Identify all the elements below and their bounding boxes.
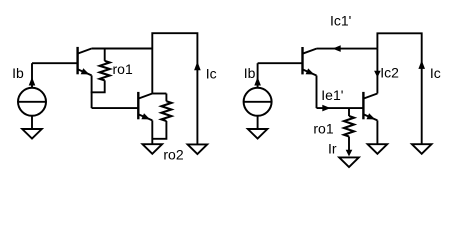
svg-text:Ic: Ic — [430, 65, 441, 81]
wire top rail over to right Ic branch — [377, 33, 421, 60]
wire Q2 emitter down — [151, 120, 153, 144]
wire Q3 emitter to Q4 base — [317, 107, 364, 109]
svg-text:ro1: ro1 — [313, 120, 333, 136]
ground below Q4 emitter — [368, 144, 388, 154]
current arrow Ie1' (points right toward Q4 base) — [322, 105, 330, 112]
wire Q3 emitter down — [316, 76, 318, 109]
wire ro2 bottom to emitter node — [152, 121, 166, 139]
wire Q1 emitter to Q2 base — [92, 107, 139, 109]
wire Q2 collector to ro2 — [152, 93, 166, 95]
current arrow Ic1' (points left toward Q3 collector) — [333, 45, 341, 52]
transistor Q3 — [303, 47, 317, 76]
wire Ib to Q3 base — [258, 62, 303, 64]
ground below ro1/Ir — [339, 157, 359, 167]
label Ic1' — [330, 12, 351, 28]
svg-text:Ib: Ib — [244, 65, 256, 81]
wire Ic branch down — [196, 61, 198, 144]
transistor Q2 — [138, 92, 152, 121]
ground below right Ib source — [248, 116, 268, 139]
current arrow Ic (right branch, points up) — [418, 60, 425, 69]
transistor Q1 — [78, 47, 92, 76]
ground below left Ib source — [22, 116, 42, 139]
label ro1 (left) — [113, 61, 133, 77]
ground below Q2 emitter — [143, 144, 163, 154]
label Ic (left) — [206, 65, 217, 81]
label ro2 — [163, 147, 183, 163]
ground below right Ic branch — [412, 144, 432, 154]
label Ic2 — [380, 65, 399, 81]
current arrow Ic (left branch, points up) — [194, 62, 201, 71]
label Ic (right) — [430, 65, 441, 81]
svg-text:ro1: ro1 — [113, 61, 133, 77]
current source Ib (right) — [244, 63, 272, 116]
svg-text:Ic: Ic — [206, 65, 217, 81]
svg-text:Ib: Ib — [12, 65, 24, 81]
ground below left Ic branch — [188, 144, 208, 154]
label Ib (right) — [244, 65, 256, 81]
current arrow Ic2 (points down) — [374, 71, 381, 78]
resistor ro1 (left) — [100, 49, 110, 81]
svg-text:Ic1': Ic1' — [330, 12, 351, 28]
wire Q3 collector rail — [317, 48, 378, 50]
wire ro1 bottom to Q1 emitter — [91, 80, 105, 92]
current arrow Ir (points down into ground) — [346, 150, 353, 157]
wire Q1 collector rail — [92, 48, 153, 50]
wire Q2 collector riser to rail — [151, 49, 153, 94]
wire Q4 emitter down — [376, 120, 378, 144]
current source Ib (left) — [18, 63, 46, 116]
wire Q1 emitter down — [91, 75, 93, 108]
label Ib (left) — [12, 65, 24, 81]
svg-text:Ic2: Ic2 — [380, 65, 399, 81]
resistor ro1 (right) — [344, 108, 354, 150]
svg-text:Ie1': Ie1' — [321, 87, 343, 103]
wire rail node up and over to Ic branch — [152, 33, 197, 61]
label Ie1' — [321, 87, 343, 103]
label ro1 (right) — [313, 120, 333, 136]
svg-text:Ir: Ir — [328, 141, 337, 157]
wire Ib to Q1 base — [32, 62, 78, 64]
label Ir — [328, 141, 337, 157]
resistor ro2 — [161, 94, 171, 122]
transistor Q4 — [363, 92, 377, 121]
wire right Ic branch down — [421, 60, 423, 144]
svg-text:ro2: ro2 — [163, 147, 183, 163]
wire Ic2 branch down to Q4 collector — [376, 49, 378, 94]
